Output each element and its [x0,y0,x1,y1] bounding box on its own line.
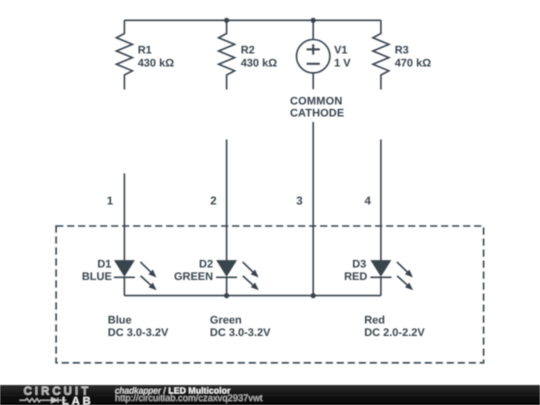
svg-text:DC 3.0-3.2V: DC 3.0-3.2V [210,327,271,339]
CircuitLab logo resistor-diode squiggle [20,398,67,403]
svg-text:DC 2.0-2.2V: DC 2.0-2.2V [364,327,425,339]
voltage source V1 [297,20,330,89]
svg-text:CATHODE: CATHODE [290,108,344,120]
wire bottom bus [124,295,381,297]
LED D2 [216,261,259,296]
svg-text:D2: D2 [199,259,213,271]
wire top bus [124,19,381,21]
svg-text:LAB: LAB [62,395,94,405]
svg-text:2: 2 [210,195,216,207]
footer bar [0,385,540,405]
resistor R2 [219,20,235,89]
svg-text:COMMON: COMMON [290,96,343,108]
node junction bottom net3 [311,293,316,298]
svg-text:470 kΩ: 470 kΩ [395,58,432,70]
svg-text:R3: R3 [395,45,409,57]
svg-text:430 kΩ: 430 kΩ [241,58,278,70]
svg-text:1: 1 [107,195,114,207]
wire node 1 [123,173,125,261]
svg-text:D3: D3 [352,259,366,271]
LED D3 [370,261,413,296]
LED D1 [114,261,157,296]
svg-text:DC 3.0-3.2V: DC 3.0-3.2V [108,327,169,339]
svg-text:GREEN: GREEN [174,271,213,283]
svg-text:RED: RED [344,271,367,283]
svg-text:3: 3 [296,195,302,207]
wire node 4 [380,140,382,261]
svg-text:Blue: Blue [108,315,132,327]
svg-text:R1: R1 [138,45,152,57]
svg-text:4: 4 [364,195,371,207]
svg-text:1 V: 1 V [334,58,351,70]
resistor R3 [373,20,389,89]
node junction top V1 [311,18,316,23]
svg-text:V1: V1 [334,45,347,57]
svg-text:D1: D1 [97,259,111,271]
wire node 2 [226,140,228,261]
svg-text:http://circuitlab.com/czaxvq29: http://circuitlab.com/czaxvq2937vwt [115,392,263,403]
svg-text:Green: Green [210,315,242,327]
resistor R1 [116,20,132,89]
wire node 3 upper [312,122,314,296]
svg-text:BLUE: BLUE [82,271,112,283]
node junction bottom D2 [224,293,229,298]
node junction top R2 [224,18,229,23]
svg-text:R2: R2 [241,45,255,57]
svg-text:Red: Red [364,315,385,327]
svg-text:430 kΩ: 430 kΩ [138,58,175,70]
dashed enclosure box [56,226,484,363]
